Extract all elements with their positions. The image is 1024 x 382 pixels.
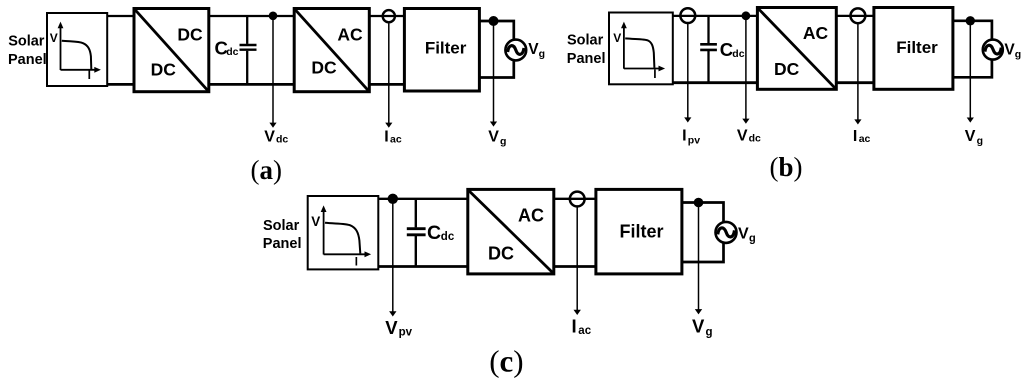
measurement line Vpv (c) xyxy=(389,199,396,317)
svg-text:V: V xyxy=(264,129,275,146)
svg-text:AC: AC xyxy=(518,205,544,225)
svg-text:(b): (b) xyxy=(769,152,802,182)
wire Filter to source top (c) xyxy=(682,203,724,223)
node Vdc junction (a) xyxy=(269,12,278,21)
wire inverter to Filter bottom (b) xyxy=(836,81,874,84)
svg-text:Solar: Solar xyxy=(263,218,300,234)
measurement line Ipv (b) xyxy=(684,23,691,122)
dc-ac inverter block (a) xyxy=(294,9,369,92)
dc-ac inverter block (b) xyxy=(757,8,836,90)
dc-ac inverter block (c) xyxy=(468,189,554,274)
current sensor Ipv (b) xyxy=(680,8,695,23)
svg-text:DC: DC xyxy=(311,58,337,78)
svg-text:DC: DC xyxy=(177,24,203,44)
node Vg junction (c) xyxy=(694,198,704,208)
svg-text:g: g xyxy=(539,48,545,60)
PV curve (a) xyxy=(62,41,92,69)
svg-text:V: V xyxy=(613,31,621,45)
label Vg source (a) xyxy=(528,41,545,60)
svg-text:DC: DC xyxy=(774,59,800,79)
measurement line Iac (a) xyxy=(385,24,392,128)
svg-text:g: g xyxy=(1015,49,1021,61)
svg-text:V: V xyxy=(488,129,499,146)
svg-text:Panel: Panel xyxy=(8,52,47,68)
svg-text:Solar: Solar xyxy=(8,34,45,50)
wire Filter to source top (b) xyxy=(953,21,992,40)
svg-text:V: V xyxy=(738,226,749,243)
label Vg source (c) xyxy=(738,226,756,245)
label Vpv (c) xyxy=(385,317,412,338)
PV curve (b) xyxy=(625,38,654,67)
svg-text:I: I xyxy=(88,68,91,82)
svg-text:Solar: Solar xyxy=(567,33,604,49)
svg-text:V: V xyxy=(385,317,398,338)
solar panel box PV (a) xyxy=(47,13,107,86)
wire Filter to source top (a) xyxy=(479,21,513,40)
label Vg measurement (b) xyxy=(965,128,983,147)
solar panel box PV (b) xyxy=(609,13,673,85)
wire DC/DC to DC/AC bottom (a) xyxy=(209,83,294,86)
svg-text:V: V xyxy=(1004,42,1015,59)
svg-text:I: I xyxy=(682,128,686,145)
I axis (c) xyxy=(324,251,372,257)
wire PV to DC/DC bottom (a) xyxy=(107,83,134,86)
svg-text:I: I xyxy=(384,129,388,146)
wire Filter to source bottom (b) xyxy=(953,59,992,77)
solar panel box PV (c) xyxy=(308,196,379,269)
svg-text:V: V xyxy=(311,214,320,229)
wire PV to DC/DC top (a) xyxy=(107,15,134,17)
measurement line Vg (b) xyxy=(967,21,974,123)
svg-text:ac: ac xyxy=(578,325,591,337)
svg-text:V: V xyxy=(965,128,976,145)
svg-text:V: V xyxy=(737,128,748,145)
value label Cdc (a) xyxy=(215,37,239,58)
svg-text:ac: ac xyxy=(859,133,871,145)
wire DC/AC to Filter bottom (a) xyxy=(369,83,404,86)
wire inverter to Filter top (b) xyxy=(836,15,874,17)
label Vg source (b) xyxy=(1004,42,1021,61)
V axis (b) xyxy=(621,22,627,69)
capacitor Cdc (c) xyxy=(407,199,426,267)
svg-text:Filter: Filter xyxy=(425,39,467,58)
PV curve (c) xyxy=(325,223,360,254)
svg-text:C: C xyxy=(427,222,441,244)
value label Cdc (b) xyxy=(720,39,745,60)
label Vg measurement (c) xyxy=(692,316,713,339)
wire inverter to Filter bottom (c) xyxy=(554,265,596,268)
svg-text:Filter: Filter xyxy=(896,38,938,57)
svg-text:ac: ac xyxy=(390,134,402,146)
svg-text:dc: dc xyxy=(441,231,455,243)
wire PV to inverter bottom (b) xyxy=(673,81,758,84)
label Vg measurement (a) xyxy=(488,129,506,148)
wire PV to inverter bottom (c) xyxy=(378,265,468,268)
wire PV to inverter top (b) xyxy=(673,15,758,17)
svg-text:dc: dc xyxy=(226,46,238,58)
node Vg junction (a) xyxy=(489,16,499,26)
capacitor Cdc (b) xyxy=(700,16,717,83)
label Solar Panel (a) xyxy=(8,34,47,68)
label Solar Panel (b) xyxy=(567,33,606,67)
svg-text:I: I xyxy=(355,257,358,269)
current sensor Iac (b) xyxy=(851,8,866,23)
filter block (b) xyxy=(874,8,953,90)
wire Filter to source bottom (a) xyxy=(479,60,513,78)
svg-text:g: g xyxy=(749,233,756,245)
label Vdc (a) xyxy=(264,129,288,146)
ac grid source Vg (c) xyxy=(716,222,737,243)
wire DC/AC to Filter top (a) xyxy=(369,15,404,17)
svg-text:dc: dc xyxy=(732,48,744,60)
svg-text:Panel: Panel xyxy=(263,236,302,252)
svg-text:I: I xyxy=(653,67,656,81)
label Iac (a) xyxy=(384,129,402,146)
svg-text:Filter: Filter xyxy=(619,222,663,242)
svg-text:dc: dc xyxy=(276,134,288,146)
I axis (a) xyxy=(61,67,101,73)
svg-text:g: g xyxy=(706,327,713,339)
svg-text:C: C xyxy=(720,39,733,60)
wire Filter to source bottom (c) xyxy=(682,243,724,262)
ac grid source Vg (b) xyxy=(983,40,1003,60)
label Solar Panel (c) xyxy=(263,218,302,252)
filter block (a) xyxy=(404,9,479,92)
current sensor Iac (c) xyxy=(570,192,585,207)
ac grid source Vg (a) xyxy=(505,40,526,61)
svg-text:I: I xyxy=(572,316,577,337)
svg-text:DC: DC xyxy=(488,244,514,264)
svg-text:AC: AC xyxy=(337,24,363,44)
capacitor Cdc (a) xyxy=(240,16,257,84)
label Vdc (b) xyxy=(737,128,761,145)
node Vdc junction (b) xyxy=(742,11,751,20)
current sensor Iac (a) xyxy=(383,10,395,22)
V axis (c) xyxy=(321,205,327,254)
measurement line Vg (c) xyxy=(695,203,702,314)
svg-text:dc: dc xyxy=(749,133,761,145)
svg-text:(a): (a) xyxy=(250,155,282,185)
svg-text:V: V xyxy=(692,316,705,337)
measurement line Vg (a) xyxy=(490,21,497,127)
measurement line Vdc (a) xyxy=(269,16,276,128)
wire PV to inverter top (c) xyxy=(378,198,468,200)
measurement line Iac (c) xyxy=(574,207,581,315)
measurement line Iac (b) xyxy=(854,23,861,124)
node Vg junction (b) xyxy=(966,16,975,25)
value label Cdc (c) xyxy=(427,222,455,244)
dc-dc converter block (a) xyxy=(134,9,209,92)
svg-text:V: V xyxy=(50,31,58,45)
label Iac (c) xyxy=(572,316,592,337)
wire DC/DC to DC/AC top (a) xyxy=(209,15,294,17)
svg-text:AC: AC xyxy=(803,23,829,43)
svg-text:I: I xyxy=(853,128,857,145)
svg-text:pv: pv xyxy=(399,327,413,339)
measurement line Vdc (b) xyxy=(742,16,749,124)
filter block (c) xyxy=(596,189,682,274)
node Vpv junction (c) xyxy=(388,194,398,204)
label Ipv (b) xyxy=(682,128,700,147)
svg-text:(c): (c) xyxy=(489,344,523,379)
wire inverter to Filter top (c) xyxy=(554,198,596,200)
svg-text:Panel: Panel xyxy=(567,51,606,67)
svg-text:V: V xyxy=(528,41,539,58)
svg-text:pv: pv xyxy=(688,134,700,146)
svg-text:DC: DC xyxy=(151,59,177,79)
I axis (b) xyxy=(624,66,665,72)
svg-text:g: g xyxy=(500,135,506,147)
label Iac (b) xyxy=(853,128,871,145)
V axis (a) xyxy=(58,22,64,70)
svg-text:g: g xyxy=(977,135,983,147)
